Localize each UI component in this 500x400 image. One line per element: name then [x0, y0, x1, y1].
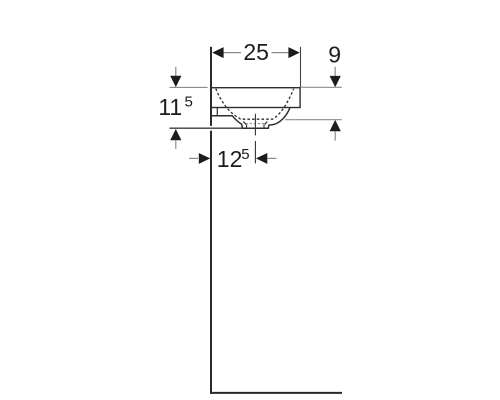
svg-text:25: 25	[243, 39, 269, 65]
svg-text:12: 12	[217, 146, 243, 172]
svg-text:5: 5	[185, 94, 193, 111]
svg-text:9: 9	[328, 42, 341, 68]
svg-text:11: 11	[158, 94, 182, 120]
svg-text:5: 5	[241, 146, 249, 163]
